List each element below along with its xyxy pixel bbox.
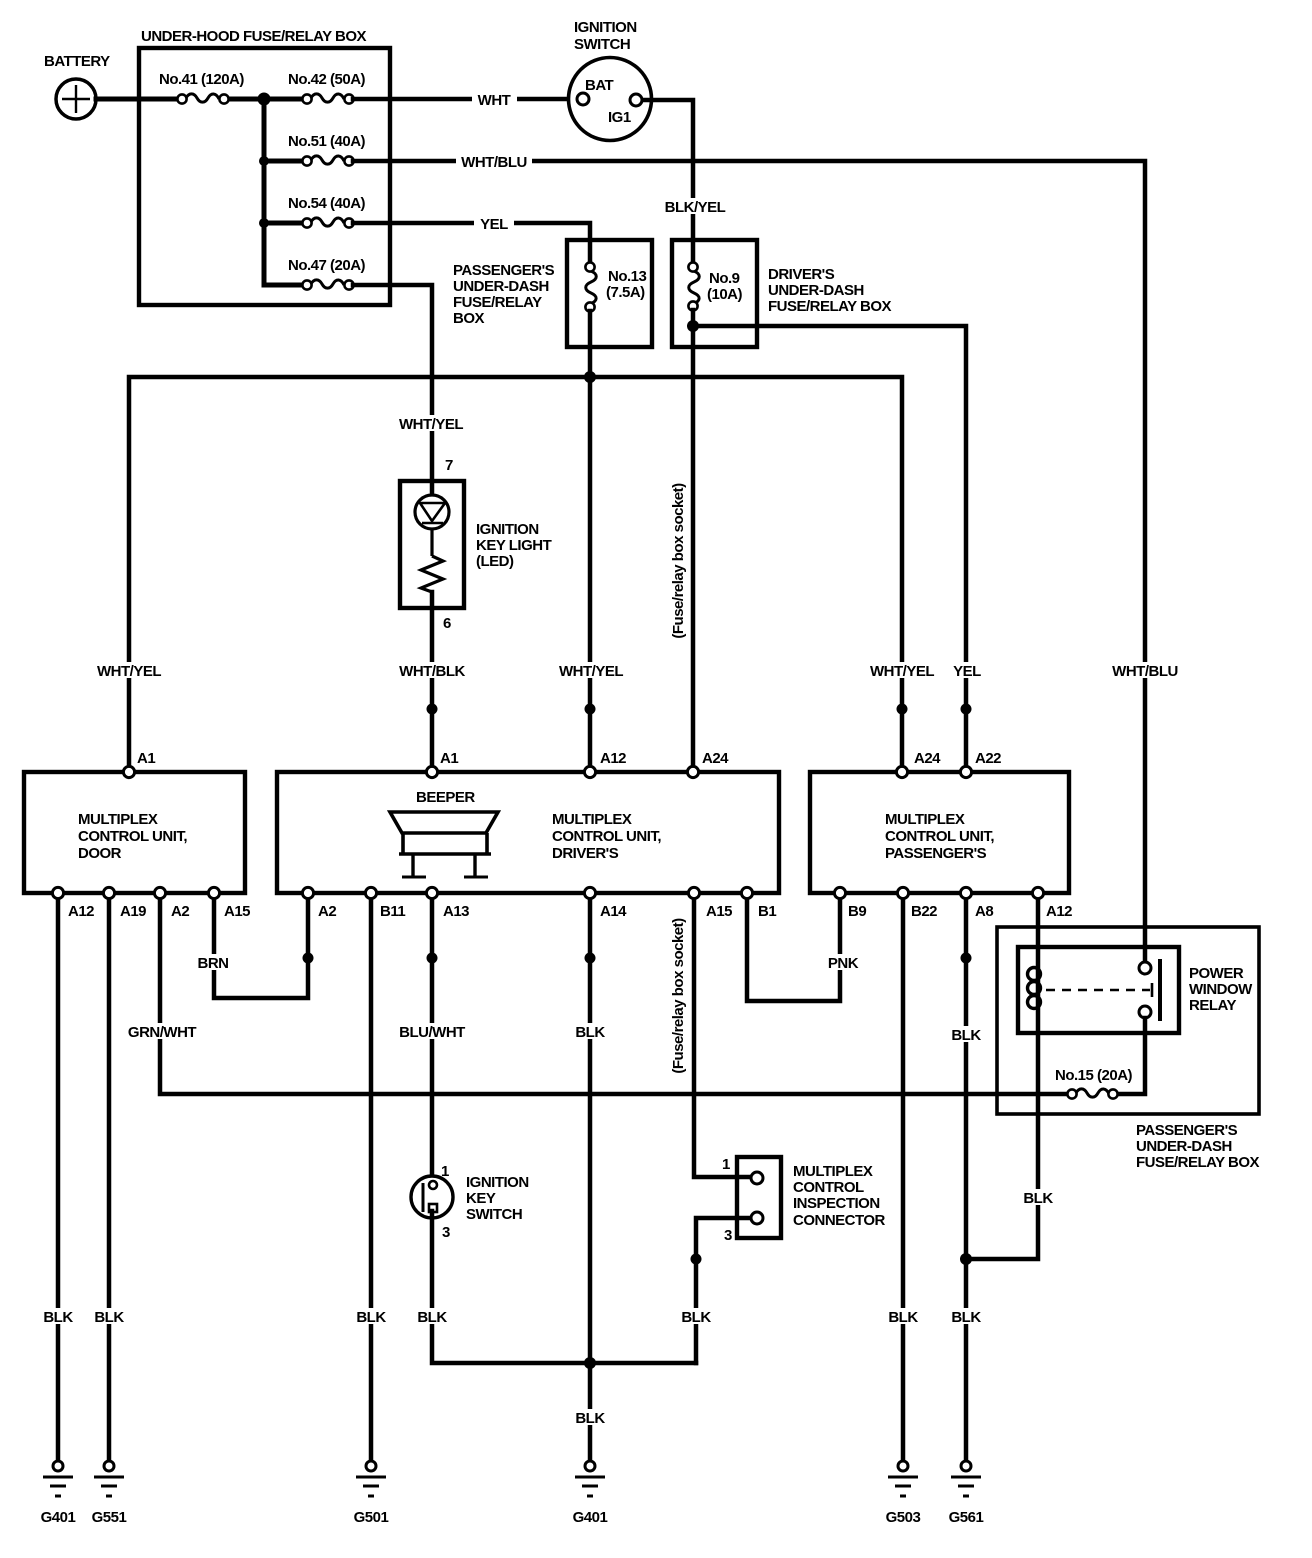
svg-text:IG1: IG1: [608, 109, 631, 126]
wire fuse41 to fuse42: [224, 97, 307, 102]
relay coil: [1028, 968, 1041, 1009]
svg-text:BLK: BLK: [43, 1309, 73, 1326]
fuse No.15 (20A): [1055, 1067, 1133, 1099]
wire fuse No.9 to driver's A24 (fuse/relay box socket): [691, 310, 696, 772]
node inline dot on A8: [961, 953, 972, 964]
svg-text:UNDER-DASH: UNDER-DASH: [768, 282, 864, 299]
battery: [44, 53, 110, 119]
svg-text:A12: A12: [1046, 903, 1072, 920]
wire door A19 BLK to G551: [107, 893, 112, 1461]
svg-text:A24: A24: [702, 750, 729, 767]
multiplex control unit, door: [24, 772, 245, 893]
wire WHT/YEL fuse47 to ignition key light: [353, 285, 432, 495]
multiplex control inspection connector: [722, 1156, 886, 1244]
wire fuse No.13 to driver's A12: [588, 311, 593, 772]
svg-text:MULTIPLEX: MULTIPLEX: [885, 811, 965, 828]
svg-text:7: 7: [445, 457, 453, 474]
svg-text:A22: A22: [975, 750, 1001, 767]
wire door A2 GRN/WHT to fuse No.15: [160, 893, 1072, 1094]
svg-text:3: 3: [724, 1227, 732, 1244]
svg-text:UNDER-DASH: UNDER-DASH: [1136, 1138, 1232, 1155]
svg-text:G503: G503: [886, 1509, 921, 1526]
wire driver A13 BLU/WHT to ignition key switch: [430, 893, 435, 1177]
svg-text:WHT/YEL: WHT/YEL: [559, 663, 623, 680]
pin A14 driver: [584, 887, 595, 898]
pin BAT: [577, 93, 589, 105]
fuse No.47 (20A): [288, 257, 366, 290]
bottom pin labels: [68, 903, 1072, 920]
wire passenger B22 BLK to G503: [901, 893, 906, 1461]
pin A13 driver: [426, 887, 437, 898]
svg-text:WHT/BLK: WHT/BLK: [399, 663, 465, 680]
svg-text:MULTIPLEX: MULTIPLEX: [552, 811, 632, 828]
ground G561 (passenger A8): [949, 1461, 984, 1526]
ground G501 (driver B11): [354, 1461, 389, 1526]
svg-text:WHT: WHT: [478, 92, 511, 109]
pin B9 passenger: [834, 887, 845, 898]
svg-text:GRN/WHT: GRN/WHT: [128, 1024, 196, 1041]
svg-text:A13: A13: [443, 903, 469, 920]
wire LED output WHT/BLK to driver's A1: [430, 592, 435, 772]
svg-text:A8: A8: [975, 903, 993, 920]
fuse No.42 (50A): [288, 71, 366, 104]
svg-text:B9: B9: [848, 903, 866, 920]
wire door A15 BRN jumper to driver A2: [214, 893, 308, 998]
svg-text:A12: A12: [600, 750, 626, 767]
ignition key switch: [411, 1163, 529, 1241]
multiplex control unit, driver's: [277, 772, 779, 893]
svg-text:WHT/YEL: WHT/YEL: [870, 663, 934, 680]
fuse No.41 (120A): [159, 71, 244, 104]
svg-text:B11: B11: [380, 903, 405, 920]
pin A2 door: [154, 887, 165, 898]
svg-text:BATTERY: BATTERY: [44, 53, 110, 70]
power window relay: [1018, 947, 1253, 1033]
pin IG1: [630, 94, 642, 106]
svg-text:3: 3: [442, 1224, 450, 1241]
svg-text:A14: A14: [600, 903, 627, 920]
svg-text:BLK: BLK: [951, 1027, 981, 1044]
wire fuse No.9 branch to passenger's A22, YEL: [693, 326, 966, 772]
pin A12 driver top: [584, 766, 595, 777]
svg-text:KEY: KEY: [466, 1190, 496, 1207]
svg-text:KEY LIGHT: KEY LIGHT: [476, 537, 552, 554]
svg-text:WHT/BLU: WHT/BLU: [1112, 663, 1178, 680]
svg-text:BLK: BLK: [681, 1309, 711, 1326]
wire internal bus: [262, 99, 267, 285]
svg-text:B1: B1: [758, 903, 776, 920]
svg-text:(Fuse/relay box socket): (Fuse/relay box socket): [670, 483, 687, 639]
svg-text:UNDER-HOOD FUSE/RELAY BOX: UNDER-HOOD FUSE/RELAY BOX: [141, 28, 367, 45]
svg-text:DRIVER'S: DRIVER'S: [768, 266, 835, 283]
svg-text:(7.5A): (7.5A): [606, 284, 645, 301]
svg-text:BLK: BLK: [94, 1309, 124, 1326]
svg-text:CONTROL UNIT,: CONTROL UNIT,: [78, 828, 187, 845]
ground G551 (door A19): [92, 1461, 127, 1526]
pin A12 passenger: [1032, 887, 1043, 898]
BLK labels row: [40, 1308, 76, 1326]
wire ignition key switch pin3 BLK to ground bus: [432, 1211, 696, 1363]
svg-text:UNDER-DASH: UNDER-DASH: [453, 278, 549, 295]
pin A1 driver: [426, 766, 437, 777]
svg-text:MULTIPLEX: MULTIPLEX: [78, 811, 158, 828]
svg-text:CONNECTOR: CONNECTOR: [793, 1212, 886, 1229]
wire driver A15 to inspection connector pin 1: [694, 893, 752, 1177]
pin 3 inspection connector: [751, 1212, 763, 1224]
node bus junction at No.13 wire: [584, 371, 596, 383]
svg-text:YEL: YEL: [953, 663, 981, 680]
node battery bus junction: [258, 93, 271, 106]
svg-text:CONTROL: CONTROL: [793, 1179, 864, 1196]
svg-text:SWITCH: SWITCH: [574, 36, 630, 53]
svg-text:PNK: PNK: [828, 955, 859, 972]
multiplex control unit, passenger's: [810, 772, 1069, 893]
wire driver A14 BLK to G401: [588, 893, 593, 1461]
node inline dot on driver A2: [303, 953, 314, 964]
driver's under-dash fuse/relay box (No.9): [672, 240, 892, 347]
svg-text:BLK: BLK: [888, 1309, 918, 1326]
svg-text:BLK: BLK: [951, 1309, 981, 1326]
node junction relay return on A8 wire: [960, 1253, 972, 1265]
svg-text:CONTROL UNIT,: CONTROL UNIT,: [552, 828, 661, 845]
svg-text:BRN: BRN: [198, 955, 229, 972]
pin A24 passenger: [896, 766, 907, 777]
node inline dot on A14: [585, 953, 596, 964]
svg-text:No.9: No.9: [709, 270, 740, 287]
wire labels above connector row: [94, 662, 164, 680]
svg-text:BLK: BLK: [575, 1410, 605, 1427]
LED D1: [415, 495, 449, 529]
node No.9 output junction: [687, 320, 699, 332]
svg-text:1: 1: [722, 1156, 730, 1173]
svg-text:WHT/YEL: WHT/YEL: [399, 416, 463, 433]
pin A12 door: [52, 887, 63, 898]
node ground bus junction at A14: [584, 1357, 596, 1369]
svg-text:(LED): (LED): [476, 553, 514, 570]
svg-text:IGNITION: IGNITION: [574, 19, 637, 36]
fuse No.9 (10A): [688, 262, 742, 310]
relay contact: [1046, 959, 1160, 1021]
svg-text:PASSENGER'S: PASSENGER'S: [885, 845, 987, 862]
wire name labels below boxes: [194, 954, 234, 972]
svg-text:MULTIPLEX: MULTIPLEX: [793, 1163, 873, 1180]
under-hood fuse/relay box: [139, 28, 390, 305]
svg-text:WHT/BLU: WHT/BLU: [461, 154, 527, 171]
wire YEL fuse54 to fuse No.13: [353, 223, 590, 266]
svg-text:DRIVER'S: DRIVER'S: [552, 845, 619, 862]
pin A24 driver: [687, 766, 698, 777]
svg-text:No.42 (50A): No.42 (50A): [288, 71, 366, 88]
wire WHT/YEL bus from fuse No.13 to door A1 and passenger A24: [129, 377, 902, 772]
pin B11 driver: [365, 887, 376, 898]
wire passenger A12 to relay coil and BLK return: [966, 893, 1038, 1259]
pin A15 driver: [688, 887, 699, 898]
wire driver B11 BLK to G501: [369, 893, 374, 1461]
svg-text:G501: G501: [354, 1509, 389, 1526]
svg-text:No.13: No.13: [608, 268, 647, 285]
svg-text:SWITCH: SWITCH: [466, 1206, 522, 1223]
pin A8 passenger: [960, 887, 971, 898]
svg-text:BLK: BLK: [417, 1309, 447, 1326]
svg-text:BLK: BLK: [575, 1024, 605, 1041]
svg-text:G401: G401: [41, 1509, 76, 1526]
wire relay return BLK label: [1020, 1189, 1056, 1207]
pin B1 driver: [741, 887, 752, 898]
svg-text:PASSENGER'S: PASSENGER'S: [453, 262, 555, 279]
wire bus to fuse54: [264, 221, 307, 226]
svg-text:A19: A19: [120, 903, 146, 920]
pin 1 inspection connector: [751, 1172, 763, 1184]
pin A19 door: [103, 887, 114, 898]
svg-text:6: 6: [443, 615, 451, 632]
svg-text:A12: A12: [68, 903, 94, 920]
svg-text:BOX: BOX: [453, 310, 485, 327]
ground G401 (driver A14): [573, 1461, 608, 1526]
fuse No.13 (7.5A): [585, 262, 646, 311]
wire IG1 to driver's under-dash fuse box, BLK/YEL: [642, 100, 693, 262]
svg-text:FUSE/RELAY: FUSE/RELAY: [453, 294, 542, 311]
svg-text:G561: G561: [949, 1509, 984, 1526]
svg-text:No.51 (40A): No.51 (40A): [288, 133, 366, 150]
wire LED to resistor: [430, 529, 433, 556]
node inline connector dots above boxes: [427, 704, 438, 715]
svg-text:G401: G401: [573, 1509, 608, 1526]
pin A1 door: [123, 766, 134, 777]
wire door A12 BLK to G401: [56, 893, 61, 1461]
pin B22 passenger: [897, 887, 908, 898]
beeper: [390, 789, 498, 877]
ignition key light (LED): [400, 457, 552, 632]
svg-text:BLK: BLK: [1023, 1190, 1053, 1207]
ground G503 (passenger B22): [886, 1461, 921, 1526]
svg-text:B22: B22: [911, 903, 937, 920]
svg-text:BLK/YEL: BLK/YEL: [665, 199, 726, 216]
svg-text:RELAY: RELAY: [1189, 997, 1236, 1014]
svg-text:A2: A2: [171, 903, 189, 920]
fuse No.54 (40A): [288, 195, 366, 228]
svg-text:FUSE/RELAY BOX: FUSE/RELAY BOX: [1136, 1154, 1260, 1171]
svg-text:A15: A15: [706, 903, 732, 920]
wire bus to fuse47: [264, 283, 307, 288]
svg-text:CONTROL UNIT,: CONTROL UNIT,: [885, 828, 994, 845]
svg-text:DOOR: DOOR: [78, 845, 122, 862]
passenger's under-dash fuse/relay box (relay): [997, 927, 1260, 1171]
wire relay contact to fuse No.15: [1113, 1018, 1145, 1094]
svg-text:(Fuse/relay box socket): (Fuse/relay box socket): [670, 918, 687, 1074]
wire passenger A8 BLK to G561: [964, 893, 969, 1461]
wire driver B1 PNK jumper to passenger B9: [747, 893, 840, 1001]
resistor R1: [421, 556, 443, 592]
svg-text:YEL: YEL: [480, 216, 508, 233]
wire WHT/BLU fuse51 to power window relay: [353, 161, 1145, 962]
wire inspection connector pin 3 to ground bus: [696, 1218, 752, 1363]
svg-text:A24: A24: [914, 750, 941, 767]
pin A2 driver: [302, 887, 313, 898]
svg-text:PASSENGER'S: PASSENGER'S: [1136, 1122, 1238, 1139]
svg-text:BEEPER: BEEPER: [416, 789, 475, 806]
svg-text:WHT/YEL: WHT/YEL: [97, 663, 161, 680]
wire battery to fuse box: [96, 97, 182, 102]
passenger's under-dash fuse/relay box (No.13): [453, 240, 652, 347]
pin A22 passenger: [960, 766, 971, 777]
svg-text:No.41 (120A): No.41 (120A): [159, 71, 244, 88]
svg-text:A1: A1: [440, 750, 458, 767]
svg-text:BLK: BLK: [356, 1309, 386, 1326]
svg-text:A1: A1: [137, 750, 155, 767]
svg-text:WINDOW: WINDOW: [1189, 981, 1253, 998]
svg-text:A2: A2: [318, 903, 336, 920]
svg-text:G551: G551: [92, 1509, 127, 1526]
wire bus to fuse51: [264, 159, 307, 164]
svg-text:1: 1: [441, 1163, 449, 1180]
wire WHT fuse42 to ignition switch BAT: [353, 97, 583, 102]
svg-text:(10A): (10A): [707, 286, 743, 303]
top pin labels: [137, 750, 1001, 767]
pin A15 door: [208, 887, 219, 898]
fuse No.51 (40A): [288, 133, 366, 166]
svg-text:No.15 (20A): No.15 (20A): [1055, 1067, 1133, 1084]
svg-text:POWER: POWER: [1189, 965, 1244, 982]
svg-text:BLU/WHT: BLU/WHT: [399, 1024, 465, 1041]
ignition switch: [569, 19, 652, 141]
svg-text:A15: A15: [224, 903, 250, 920]
svg-text:IGNITION: IGNITION: [466, 1174, 529, 1191]
svg-text:BAT: BAT: [585, 77, 614, 94]
node inline dot on connector pin3 wire: [691, 1254, 702, 1265]
svg-text:FUSE/RELAY BOX: FUSE/RELAY BOX: [768, 298, 892, 315]
ground G401 (door A12): [41, 1461, 76, 1526]
svg-text:No.54 (40A): No.54 (40A): [288, 195, 366, 212]
svg-text:No.47 (20A): No.47 (20A): [288, 257, 366, 274]
node inline dot on A13: [427, 953, 438, 964]
svg-text:IGNITION: IGNITION: [476, 521, 539, 538]
svg-text:INSPECTION: INSPECTION: [793, 1195, 880, 1212]
